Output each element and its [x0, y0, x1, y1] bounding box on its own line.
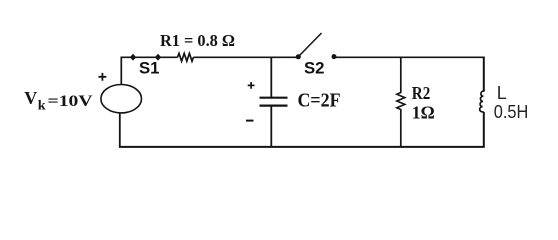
switch S2 left terminal dot	[296, 54, 301, 59]
wire bottom segment	[119, 146, 485, 148]
svg-text:R2: R2	[412, 83, 431, 103]
wire inductor branch upper	[483, 57, 485, 91]
svg-text:k: k	[38, 99, 46, 114]
label L	[497, 83, 507, 103]
wire capacitor branch upper	[270, 57, 272, 98]
svg-text:V: V	[24, 88, 37, 108]
wire top segment R1 to S2	[193, 56, 298, 58]
switch S2 right terminal dot	[332, 54, 337, 59]
plus sign at voltage source	[99, 73, 107, 81]
wire inductor branch lower	[483, 112, 485, 147]
svg-text:S2: S2	[304, 59, 325, 78]
inductor L coil	[480, 90, 485, 112]
svg-text:R1 = 0.8 Ω: R1 = 0.8 Ω	[160, 31, 235, 50]
capacitor C plates	[260, 98, 288, 106]
label R1 = 0.8 ohm	[160, 31, 235, 50]
resistor R1 zigzag	[178, 53, 194, 61]
wire left vertical from top corner down to source top	[120, 57, 122, 86]
label C=2F	[298, 90, 341, 112]
svg-text:=10V: =10V	[48, 93, 94, 110]
wire resistor R2 branch lower	[400, 109, 402, 147]
label S1	[139, 59, 160, 78]
switch S1 terminal diamonds	[130, 54, 161, 61]
label 1 ohm	[412, 103, 435, 123]
switch S2 open blade	[299, 33, 322, 56]
minus sign at capacitor	[246, 120, 254, 122]
label 0.5H	[494, 102, 529, 122]
svg-text:C=2F: C=2F	[298, 90, 341, 112]
label R2	[412, 83, 431, 103]
svg-text:1Ω: 1Ω	[412, 103, 435, 123]
wire top right segment from S2 to top-right corner	[336, 56, 483, 58]
label S2	[304, 59, 325, 78]
label Vk=10V	[24, 88, 93, 114]
voltage source Vk ellipse	[101, 85, 142, 113]
svg-text:S1: S1	[139, 59, 160, 78]
wire capacitor branch lower	[270, 106, 272, 147]
svg-text:L: L	[497, 83, 507, 103]
resistor R2 zigzag	[397, 93, 405, 110]
wire from source bottom to bottom-left corner	[119, 113, 121, 148]
wire top segment from source corner to S2 left terminal	[122, 56, 178, 58]
plus sign at capacitor	[248, 82, 255, 89]
svg-text:0.5H: 0.5H	[494, 102, 529, 122]
wire resistor R2 branch upper	[400, 57, 402, 94]
